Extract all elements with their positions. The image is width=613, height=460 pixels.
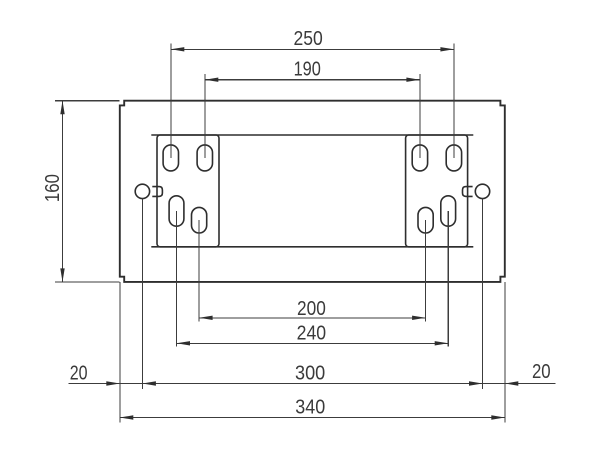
svg-text:20: 20: [532, 360, 551, 383]
arrow 300 right: [469, 381, 483, 385]
arrow 240 right: [435, 341, 449, 345]
arrow 190 left: [205, 78, 219, 82]
arrow 200 right: [412, 316, 426, 320]
extension line 240 left: [176, 211, 178, 347]
extension line 300 left (circle centre): [141, 199, 143, 389]
inner opening top edge: [151, 134, 473, 136]
arrow 300 left: [142, 381, 156, 385]
label 240: [297, 322, 326, 344]
svg-text:160: 160: [40, 174, 63, 202]
svg-text:250: 250: [293, 27, 322, 49]
extension line 250 right: [453, 44, 455, 158]
dimension line 250: [171, 48, 454, 50]
left bracket: [157, 135, 219, 247]
svg-text:240: 240: [297, 322, 326, 344]
arrow 250 right: [440, 47, 454, 51]
svg-text:190: 190: [294, 57, 321, 80]
slot bottom-right inner: [418, 207, 433, 233]
dimension line 340: [120, 417, 505, 419]
label 160 (rotated): [40, 174, 63, 202]
svg-text:300: 300: [295, 363, 325, 385]
dimension line 200: [199, 317, 426, 319]
svg-text:340: 340: [295, 397, 325, 419]
arrow 20 left (points right at plate edge): [106, 381, 120, 385]
right tab: [463, 187, 473, 197]
extension line 250 left: [170, 44, 172, 158]
label 20 right: [532, 360, 551, 383]
label 190: [294, 57, 321, 80]
left tab: [152, 187, 162, 197]
label 200: [297, 297, 326, 319]
arrow 240 left: [177, 341, 191, 345]
dimension line 190: [205, 79, 420, 81]
arrow 160 bottom: [60, 268, 64, 282]
dimension line 20-300-20: [69, 383, 556, 385]
extension line plate left edge: [119, 282, 121, 423]
slot top-left inner: [197, 145, 212, 171]
extension line 190 right: [419, 74, 421, 158]
extension line 200 left: [198, 220, 200, 321]
slot bottom-right outer: [441, 196, 456, 226]
right knockout circle: [475, 184, 489, 198]
extension line 160 top: [55, 100, 119, 102]
label 340: [295, 397, 325, 419]
slot top-right inner: [412, 145, 427, 171]
label 250: [293, 27, 322, 49]
arrow 340 left: [120, 415, 134, 419]
slot bottom-left inner: [192, 207, 207, 233]
dimension line 240: [177, 342, 449, 344]
slot top-left outer: [163, 145, 178, 171]
arrow 160 top: [60, 101, 64, 115]
extension line plate right edge: [504, 282, 506, 423]
extension line 160 bottom: [55, 281, 119, 283]
slot top-right outer: [446, 145, 461, 171]
plate outline with notched corners: [120, 101, 505, 282]
svg-text:200: 200: [297, 297, 326, 319]
label 20 left: [70, 362, 88, 384]
arrow 190 right: [406, 78, 420, 82]
left knockout circle: [135, 184, 149, 198]
right bracket: [406, 135, 468, 247]
svg-text:20: 20: [70, 362, 88, 384]
extension line 300 right (circle centre): [482, 199, 484, 389]
extension line 200 right: [425, 220, 427, 321]
label 300: [295, 363, 325, 385]
arrow 340 right: [491, 415, 505, 419]
dimension line 160: [62, 101, 64, 282]
slot bottom-left outer: [169, 196, 184, 226]
extension line 190 left: [204, 74, 206, 158]
arrow 250 left: [171, 47, 185, 51]
arrow 20 right (points left at plate edge): [505, 381, 519, 385]
inner opening bottom edge: [151, 246, 473, 248]
arrow 200 left: [199, 316, 213, 320]
extension line 240 right: [447, 211, 449, 347]
